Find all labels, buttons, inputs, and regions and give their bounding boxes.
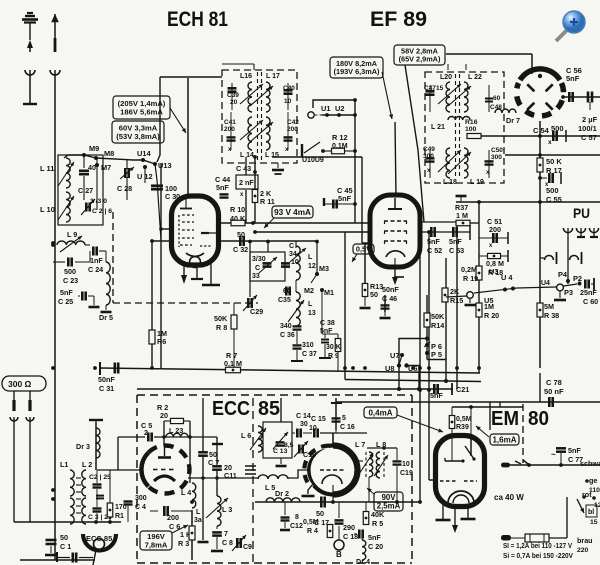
svg-text:Dr 4: Dr 4 xyxy=(356,557,370,565)
svg-text:L 17: L 17 xyxy=(266,73,280,80)
svg-text:0,2M: 0,2M xyxy=(461,265,477,274)
svg-text:1,6mA: 1,6mA xyxy=(492,435,516,444)
svg-text:Dr 7: Dr 7 xyxy=(506,116,520,125)
svg-text:L 22: L 22 xyxy=(468,74,482,81)
svg-text:220: 220 xyxy=(577,547,589,554)
svg-text:C9: C9 xyxy=(243,544,252,551)
svg-text:P3: P3 xyxy=(564,288,573,297)
svg-text:5nF: 5nF xyxy=(338,194,352,203)
svg-text:0,5M: 0,5M xyxy=(456,416,472,423)
svg-text:R 19: R 19 xyxy=(463,274,478,283)
svg-text:U7: U7 xyxy=(390,351,399,360)
svg-text:U6: U6 xyxy=(408,364,417,373)
svg-text:30 K: 30 K xyxy=(326,344,341,351)
svg-text:M3: M3 xyxy=(319,264,329,273)
svg-text:8: 8 xyxy=(295,514,299,521)
svg-text:C 20: C 20 xyxy=(368,542,383,551)
svg-text:1nF: 1nF xyxy=(90,256,103,265)
svg-text:2K: 2K xyxy=(450,287,460,296)
svg-text:C 53: C 53 xyxy=(449,246,464,255)
svg-text:C 24: C 24 xyxy=(88,265,103,274)
svg-text:7,8mA: 7,8mA xyxy=(145,540,168,549)
svg-text:100: 100 xyxy=(465,126,477,133)
svg-text:5M: 5M xyxy=(544,302,554,311)
svg-text:7: 7 xyxy=(224,531,228,538)
svg-text:13: 13 xyxy=(308,310,316,317)
svg-text:Dr 2: Dr 2 xyxy=(275,489,289,498)
svg-text:C 25: C 25 xyxy=(58,297,73,306)
svg-text:290: 290 xyxy=(343,523,355,532)
svg-text:R 38: R 38 xyxy=(544,311,559,320)
svg-text:ECC 85: ECC 85 xyxy=(86,534,112,543)
svg-text:U10U9: U10U9 xyxy=(302,157,324,164)
svg-text:C 2 | 6: C 2 | 6 xyxy=(92,208,112,215)
svg-text:R15: R15 xyxy=(450,296,463,305)
svg-text:5nF: 5nF xyxy=(427,237,440,246)
svg-text:C 6: C 6 xyxy=(169,522,180,531)
svg-text:L 9: L 9 xyxy=(67,230,77,239)
svg-text:C 13: C 13 xyxy=(273,448,288,455)
svg-text:U3: U3 xyxy=(489,267,498,276)
svg-text:C41: C41 xyxy=(224,119,236,126)
svg-text:L 2: L 2 xyxy=(82,460,92,469)
svg-text:EM: EM xyxy=(491,407,519,430)
svg-text:L 14: L 14 xyxy=(240,152,254,159)
svg-text:200: 200 xyxy=(489,225,501,234)
svg-text:C19: C19 xyxy=(400,470,413,477)
svg-text:200: 200 xyxy=(224,126,235,133)
svg-text:5nF: 5nF xyxy=(60,288,73,297)
svg-text:20: 20 xyxy=(230,99,238,106)
svg-text:C 16: C 16 xyxy=(340,424,355,431)
svg-text:U13: U13 xyxy=(158,161,172,170)
svg-text:15: 15 xyxy=(436,85,444,92)
svg-text:5nF: 5nF xyxy=(430,391,443,400)
svg-text:Dr 5: Dr 5 xyxy=(99,313,113,322)
svg-text:0,1 M: 0,1 M xyxy=(224,359,242,368)
svg-text:5nF: 5nF xyxy=(566,74,580,83)
svg-text:schwa: schwa xyxy=(580,459,600,468)
svg-text:C 60: C 60 xyxy=(583,297,598,306)
svg-text:C42: C42 xyxy=(287,119,299,126)
svg-text:C 32: C 32 xyxy=(233,245,248,254)
svg-text:SI = 1,2A bei 110 -127 V: SI = 1,2A bei 110 -127 V xyxy=(503,541,572,550)
svg-text:ECC: ECC xyxy=(212,398,250,420)
svg-text:186V 5,6mA: 186V 5,6mA xyxy=(120,107,163,116)
svg-text:R 5: R 5 xyxy=(372,519,383,528)
svg-text:C 78: C 78 xyxy=(546,378,562,387)
svg-text:C 15: C 15 xyxy=(311,416,326,423)
svg-text:C 23: C 23 xyxy=(63,276,78,285)
svg-text:50: 50 xyxy=(370,290,378,299)
svg-text:50nF: 50nF xyxy=(382,285,399,294)
svg-text:R 9: R 9 xyxy=(328,353,339,360)
svg-text:PU: PU xyxy=(573,205,590,221)
svg-text:L 10: L 10 xyxy=(40,205,55,214)
svg-text:2 µF: 2 µF xyxy=(582,115,598,124)
svg-text:L 4: L 4 xyxy=(181,488,191,497)
svg-text:R1: R1 xyxy=(115,513,124,520)
svg-text:200: 200 xyxy=(287,126,298,133)
svg-text:50 K: 50 K xyxy=(546,157,562,166)
svg-text:0,5M: 0,5M xyxy=(303,519,319,526)
svg-text:(53V 3,8mA): (53V 3,8mA) xyxy=(116,132,160,141)
svg-text:M7: M7 xyxy=(101,163,111,172)
svg-text:L: L xyxy=(196,509,201,516)
svg-text:3 /3 0: 3 /3 0 xyxy=(90,198,107,205)
svg-text:500: 500 xyxy=(546,186,559,195)
svg-text:R14: R14 xyxy=(431,321,444,330)
svg-text:L1: L1 xyxy=(60,460,68,469)
svg-text:2 nF: 2 nF xyxy=(239,178,254,187)
svg-text:50: 50 xyxy=(60,533,68,542)
svg-text:C: C xyxy=(289,243,294,250)
svg-text:C 57: C 57 xyxy=(581,133,597,142)
svg-text:0,4mA: 0,4mA xyxy=(368,408,392,417)
svg-text:50nF: 50nF xyxy=(98,375,115,384)
svg-text:25nF: 25nF xyxy=(580,288,597,297)
svg-text:L 21: L 21 xyxy=(431,124,445,131)
svg-text:300: 300 xyxy=(491,154,502,161)
svg-text:L 6: L 6 xyxy=(241,431,251,440)
svg-text:ca 40 W: ca 40 W xyxy=(494,493,524,502)
svg-text:C 55: C 55 xyxy=(546,195,562,204)
svg-text:80: 80 xyxy=(528,407,549,430)
svg-text:U 4: U 4 xyxy=(501,273,513,282)
svg-text:U1: U1 xyxy=(321,104,330,113)
svg-text:U14: U14 xyxy=(137,149,151,158)
svg-text:C 28: C 28 xyxy=(117,184,132,193)
svg-text:L20: L20 xyxy=(440,74,452,81)
svg-text:M1: M1 xyxy=(324,288,334,297)
svg-text:5: 5 xyxy=(342,415,346,422)
svg-text:C39: C39 xyxy=(227,92,239,99)
svg-text:5nF: 5nF xyxy=(216,183,229,192)
svg-text:10: 10 xyxy=(309,425,317,432)
svg-text:R 11: R 11 xyxy=(260,197,275,206)
svg-text:U5: U5 xyxy=(484,296,493,305)
svg-text:C35: C35 xyxy=(278,297,291,304)
svg-text:10: 10 xyxy=(284,98,292,105)
svg-text:C 43: C 43 xyxy=(236,164,251,173)
svg-text:R 3: R 3 xyxy=(178,539,189,548)
svg-text:Dr 3: Dr 3 xyxy=(76,442,90,451)
svg-text:C 31: C 31 xyxy=(99,384,114,393)
svg-text:L 5: L 5 xyxy=(265,483,275,492)
svg-text:C 18: C 18 xyxy=(343,532,358,541)
svg-text:5nF: 5nF xyxy=(368,533,381,542)
svg-text:50 nF: 50 nF xyxy=(544,387,564,396)
svg-text:33: 33 xyxy=(252,273,260,280)
svg-text:C 14: C 14 xyxy=(296,413,311,420)
svg-text:L 11: L 11 xyxy=(40,164,54,173)
svg-text:x: x xyxy=(548,139,552,146)
svg-text:P4: P4 xyxy=(558,270,568,279)
svg-text:15: 15 xyxy=(590,519,598,526)
svg-text:C 46: C 46 xyxy=(382,294,397,303)
svg-text:ECH 81: ECH 81 xyxy=(167,7,228,31)
svg-text:90V: 90V xyxy=(382,493,397,502)
svg-text:30: 30 xyxy=(300,421,308,428)
svg-text:C40: C40 xyxy=(283,85,295,92)
svg-text:U8: U8 xyxy=(385,364,394,373)
svg-text:Si = 0,7A bei 150 -220V: Si = 0,7A bei 150 -220V xyxy=(503,551,573,560)
svg-text:L: L xyxy=(308,254,313,261)
svg-text:C50: C50 xyxy=(491,147,503,154)
svg-text:200: 200 xyxy=(167,513,179,522)
svg-text:C: C xyxy=(255,265,260,272)
svg-text:340: 340 xyxy=(280,323,292,330)
svg-text:50: 50 xyxy=(316,509,324,518)
svg-text:C 37: C 37 xyxy=(302,351,317,358)
svg-text:(65V 2,9mA): (65V 2,9mA) xyxy=(399,55,441,64)
svg-text:12: 12 xyxy=(308,263,316,270)
svg-text:L 15: L 15 xyxy=(265,152,279,159)
svg-text:40K: 40K xyxy=(371,510,385,519)
svg-text:C10: C10 xyxy=(303,450,316,459)
svg-text:B: B xyxy=(336,550,342,559)
svg-text:R 20: R 20 xyxy=(484,311,499,320)
svg-text:C 4: C 4 xyxy=(135,504,146,511)
svg-text:R39: R39 xyxy=(456,424,469,431)
svg-text:10: 10 xyxy=(402,461,410,468)
svg-text:P 5: P 5 xyxy=(431,350,442,359)
svg-text:U4: U4 xyxy=(541,280,550,287)
svg-text:300: 300 xyxy=(135,495,147,502)
svg-text:L 18: L 18 xyxy=(443,179,457,186)
svg-text:U2: U2 xyxy=(335,104,344,113)
svg-text:M8: M8 xyxy=(104,149,114,158)
svg-text:R 12: R 12 xyxy=(332,133,348,142)
svg-text:R16: R16 xyxy=(465,119,478,126)
svg-text:310: 310 xyxy=(302,342,314,349)
svg-text:1 M: 1 M xyxy=(456,211,468,220)
svg-text:M9: M9 xyxy=(89,144,99,153)
svg-text:C 27: C 27 xyxy=(78,186,93,195)
svg-text:300: 300 xyxy=(423,153,434,160)
svg-text:C 8: C 8 xyxy=(222,540,233,547)
svg-text:R 4: R 4 xyxy=(307,528,318,535)
svg-text:85: 85 xyxy=(258,398,280,420)
svg-text:R 8: R 8 xyxy=(216,323,227,332)
svg-text:C12: C12 xyxy=(290,523,303,530)
svg-text:500: 500 xyxy=(64,267,76,276)
svg-text:C 54: C 54 xyxy=(533,126,550,135)
svg-text:20: 20 xyxy=(160,411,168,420)
svg-text:60: 60 xyxy=(493,95,501,102)
svg-text:3/30: 3/30 xyxy=(252,256,266,263)
svg-text:C47: C47 xyxy=(424,85,436,92)
svg-text:L: L xyxy=(308,301,313,308)
svg-text:R6: R6 xyxy=(157,337,166,346)
svg-text:R 10: R 10 xyxy=(230,205,245,214)
svg-text:40: 40 xyxy=(88,163,96,172)
svg-text:300 Ω: 300 Ω xyxy=(8,379,32,389)
svg-text:bl: bl xyxy=(588,509,594,516)
svg-text:C 30: C 30 xyxy=(165,192,180,201)
svg-text:C 52: C 52 xyxy=(427,246,442,255)
svg-text:M2: M2 xyxy=(304,286,314,295)
svg-text:L 3: L 3 xyxy=(222,505,232,514)
svg-text:EF 89: EF 89 xyxy=(370,7,427,31)
svg-text:5nF: 5nF xyxy=(568,446,581,455)
svg-text:50K: 50K xyxy=(431,312,445,321)
svg-text:93 V 4mA: 93 V 4mA xyxy=(274,208,311,217)
svg-text:C2 | 25: C2 | 25 xyxy=(89,474,111,481)
svg-text:(193V 6,3mA): (193V 6,3mA) xyxy=(334,67,380,76)
svg-text:brau: brau xyxy=(577,536,593,545)
svg-text:ge: ge xyxy=(589,476,597,485)
svg-text:C 36: C 36 xyxy=(280,332,295,339)
svg-text:60: 60 xyxy=(283,288,291,295)
svg-text:C21: C21 xyxy=(456,385,469,394)
svg-text:L 7: L 7 xyxy=(355,440,365,449)
svg-text:3a: 3a xyxy=(194,517,202,524)
svg-text:100/1: 100/1 xyxy=(578,124,597,133)
svg-text:50K: 50K xyxy=(214,314,228,323)
svg-text:C29: C29 xyxy=(250,307,263,316)
svg-text:5nF: 5nF xyxy=(449,237,462,246)
svg-text:L16: L16 xyxy=(240,73,252,80)
svg-text:P2: P2 xyxy=(573,274,582,283)
svg-text:C 1: C 1 xyxy=(60,542,71,551)
svg-text:C49: C49 xyxy=(423,146,435,153)
svg-text:~: ~ xyxy=(551,450,556,459)
svg-text:L 19: L 19 xyxy=(470,179,484,186)
